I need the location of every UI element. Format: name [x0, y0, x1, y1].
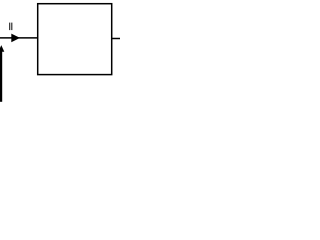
arrowhead pointing up on feedback wire	[0, 45, 4, 52]
label ii (input signal label)	[9, 23, 10, 31]
wire output line from block	[112, 38, 120, 40]
wire input line into block	[0, 37, 38, 39]
block U1 (plant box)	[38, 4, 112, 75]
wire vertical feedback line	[0, 51, 2, 102]
arrowhead on input wire	[11, 34, 20, 43]
